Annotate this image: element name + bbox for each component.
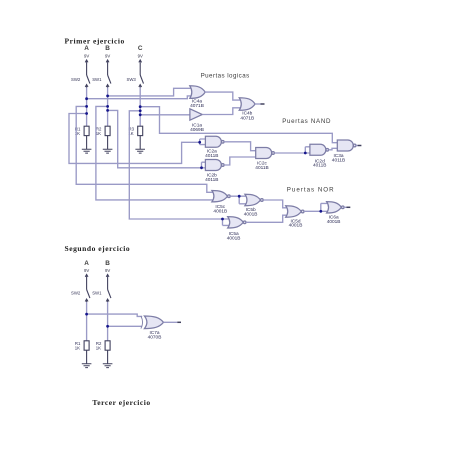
wire A to IC5c top input <box>76 106 213 192</box>
nor-gate IC5d <box>286 206 304 229</box>
svg-text:Tercer ejercicio: Tercer ejercicio <box>92 398 150 407</box>
wire IC2a output to IC2c top input <box>224 142 256 151</box>
ground (ex2 R2) <box>103 364 113 368</box>
wire column B <box>107 88 109 127</box>
svg-text:4011B: 4011B <box>205 177 218 183</box>
ground (ex2 R1) <box>82 364 92 368</box>
wire IC3a output <box>356 145 358 147</box>
wire column B (ex2) <box>107 302 109 341</box>
wire column C <box>139 88 141 127</box>
power pin arrow C <box>139 60 142 63</box>
wire IC5a output to IC5d bottom input <box>246 215 287 222</box>
resistor R2 <box>96 126 110 149</box>
nand-gate IC2c <box>255 148 274 172</box>
wire IC7a output <box>164 321 178 323</box>
svg-text:1K: 1K <box>96 346 101 351</box>
nand-gate IC2a <box>205 136 224 159</box>
node dot C3 <box>139 113 142 116</box>
svg-text:SW1: SW1 <box>92 77 102 82</box>
wire B to IC7a bottom input <box>108 325 143 327</box>
svg-text:SW1: SW1 <box>92 291 102 296</box>
wire IC4a output to IC4b top input <box>205 92 240 100</box>
nor-gate IC6a <box>327 202 345 225</box>
or-gate IC4b <box>239 98 255 122</box>
ground (R2) <box>103 149 113 153</box>
node dot C2 <box>139 109 142 112</box>
svg-text:4011B: 4011B <box>313 163 326 169</box>
node dot IC2b tie <box>200 166 203 169</box>
svg-text:9V: 9V <box>105 53 110 58</box>
svg-text:9V: 9V <box>138 53 143 58</box>
svg-text:SW2: SW2 <box>71 77 81 82</box>
svg-text:9V: 9V <box>105 268 110 273</box>
pin tick IC6a output <box>347 206 351 208</box>
resistor R3 <box>128 126 142 149</box>
node dot IC2a tie <box>198 141 201 144</box>
svg-text:4071B: 4071B <box>240 115 254 121</box>
wire A to IC7a top input <box>87 314 143 316</box>
svg-text:1K: 1K <box>75 346 80 351</box>
node dot B3 <box>106 109 109 112</box>
nand-gate IC2b <box>205 160 224 183</box>
node dot IC5a tie <box>221 218 224 221</box>
wire column A <box>86 88 88 127</box>
svg-text:4011B: 4011B <box>332 158 345 164</box>
wire A to IC4a bottom input <box>87 96 192 99</box>
node dot B2 <box>106 105 109 108</box>
switch SW1 (ex2 input B) <box>92 278 111 303</box>
node dot IC6a tie <box>319 210 322 213</box>
wire IC1a output to IC4b bottom input <box>202 108 240 115</box>
switch SW2 (ex2 input A) <box>71 278 90 303</box>
svg-text:Primer ejercicio: Primer ejercicio <box>65 37 125 46</box>
wire B to IC5c bottom input <box>96 106 214 199</box>
inverter IC1a <box>190 109 204 133</box>
nor-gate IC5c <box>212 191 230 215</box>
svg-text:9V: 9V <box>84 268 89 273</box>
wire IC6a output <box>344 206 346 208</box>
svg-text:C: C <box>138 45 143 52</box>
svg-text:Puertas NOR: Puertas NOR <box>287 186 335 193</box>
wire column A (ex2) <box>86 302 88 341</box>
node dot B1 <box>106 95 109 98</box>
node dot A1 <box>85 97 88 100</box>
wire IC2d output to IC3a bottom input <box>329 148 339 150</box>
or-gate IC4a <box>190 86 205 109</box>
wire IC4b output <box>255 103 261 105</box>
wire IC2c output to IC2d input <box>274 147 310 153</box>
wire IC2b output to IC2c bottom input <box>224 157 256 165</box>
svg-text:4001B: 4001B <box>289 223 303 229</box>
svg-text:4001B: 4001B <box>213 209 227 215</box>
node dot A (ex2) <box>85 313 88 316</box>
switch SW2 (input A) <box>71 63 90 88</box>
wire C to IC3a top input <box>140 107 338 143</box>
svg-text:Segundo ejercicio: Segundo ejercicio <box>65 244 131 253</box>
svg-text:4001B: 4001B <box>244 212 258 218</box>
node dot IC2d tie <box>304 152 307 155</box>
resistor R1 <box>75 126 89 149</box>
svg-text:SW3: SW3 <box>126 77 136 82</box>
svg-text:SW2: SW2 <box>71 291 81 296</box>
power pin arrow B (ex2) <box>106 274 109 277</box>
svg-text:4011B: 4011B <box>205 153 218 159</box>
node dot IC5b tie <box>238 195 241 198</box>
wire A to IC2a input <box>69 114 206 164</box>
ground (R3) <box>135 149 145 153</box>
nor-gate IC5a <box>227 217 246 242</box>
svg-text:A: A <box>84 260 89 267</box>
xor-gate IC7a <box>141 316 164 341</box>
wire IC5c output to IC5b tied input <box>230 196 245 204</box>
pin tick IC4b output <box>261 103 265 105</box>
resistor R2 (ex2) <box>96 341 110 364</box>
power pin arrow A (ex2) <box>85 274 88 277</box>
wire B to IC4a top input <box>108 88 192 96</box>
ground (R1) <box>82 149 92 153</box>
wire C to IC5a input <box>129 111 229 226</box>
svg-text:4011B: 4011B <box>255 165 268 171</box>
svg-text:Puertas logicas: Puertas logicas <box>201 73 250 80</box>
pin tick IC7a output <box>177 321 181 323</box>
wire C to IC1a input <box>140 114 190 116</box>
switch SW1 (input B) <box>92 63 111 88</box>
resistor R1 (ex2) <box>75 341 89 364</box>
switch SW3 (input C) <box>126 63 143 88</box>
node dot B (ex2) <box>106 325 109 328</box>
svg-text:A: A <box>84 45 89 52</box>
wire IC5d output to IC6a tied input <box>304 203 327 211</box>
svg-text:9V: 9V <box>84 53 89 58</box>
node dot A3 <box>85 112 88 115</box>
power pin arrow B <box>106 60 109 63</box>
svg-text:B: B <box>105 45 110 52</box>
svg-text:4070B: 4070B <box>148 335 162 341</box>
nor-gate IC5b <box>244 194 263 217</box>
pin tick IC3a output <box>358 145 362 147</box>
svg-text:B: B <box>105 260 110 267</box>
wire IC5b output to IC5d top input <box>263 200 287 208</box>
svg-text:4071B: 4071B <box>190 103 204 109</box>
svg-text:4069B: 4069B <box>190 127 204 133</box>
nand-gate IC2d <box>310 144 329 168</box>
svg-text:4001B: 4001B <box>227 236 241 242</box>
power pin arrow A <box>85 60 88 63</box>
wire B to IC2b input <box>108 110 206 167</box>
node dot A2 <box>85 105 88 108</box>
svg-text:Puertas NAND: Puertas NAND <box>282 118 331 125</box>
node dot C1 <box>139 105 142 108</box>
svg-text:4001B: 4001B <box>327 219 341 225</box>
nand-gate IC3a <box>332 140 356 164</box>
